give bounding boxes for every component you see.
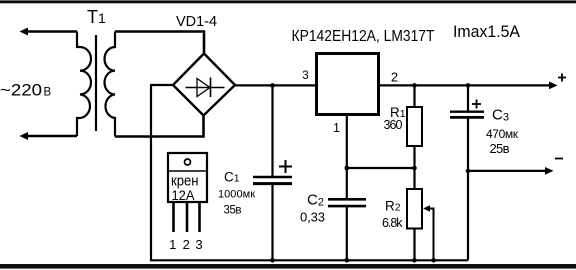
wire: regulator pin 1 down bbox=[346, 115, 348, 169]
wire: pin1 to R1/R2 junction bbox=[347, 167, 415, 169]
svg-text:2: 2 bbox=[391, 70, 398, 85]
transformer T1 primary winding bbox=[77, 32, 91, 137]
minus mark output bbox=[555, 158, 563, 160]
svg-text:1: 1 bbox=[333, 121, 340, 135]
svg-text:3: 3 bbox=[195, 237, 202, 252]
svg-text:35в: 35в bbox=[224, 205, 242, 217]
node: junction R2 bottom bbox=[412, 258, 417, 263]
svg-text:1000мк: 1000мк bbox=[218, 189, 255, 201]
node: junction C2 bottom bbox=[345, 258, 350, 263]
node: junction C1 bottom bbox=[270, 258, 275, 263]
wire: minus output with arrow bbox=[468, 170, 550, 172]
capacitor C1 bbox=[271, 85, 273, 176]
wire: AC input top with arrow bbox=[24, 30, 77, 33]
regulator package (TO-220) body bbox=[168, 153, 207, 202]
svg-text:6.8k: 6.8k bbox=[382, 216, 403, 230]
node: junction minus branch bbox=[466, 169, 471, 174]
svg-text:КР142ЕН12А, LM317Т: КР142ЕН12А, LM317Т bbox=[292, 28, 435, 45]
svg-text:470мк: 470мк bbox=[486, 127, 519, 141]
node: junction C1 top bbox=[270, 83, 275, 88]
svg-text:25в: 25в bbox=[490, 141, 510, 156]
bridge rectifier VD1-4 diamond bbox=[173, 54, 235, 116]
wire: bridge plus (right vertex) to regulator pin 3 bbox=[235, 84, 316, 86]
package pin 1 bbox=[172, 203, 175, 233]
wire: AC input bottom with arrow bbox=[24, 135, 77, 138]
diode symbol inside bridge bbox=[186, 87, 225, 89]
svg-text:R2: R2 bbox=[385, 199, 401, 214]
capacitor C3 bbox=[467, 85, 469, 110]
svg-text:~220: ~220 bbox=[0, 82, 42, 100]
svg-text:VD1-4: VD1-4 bbox=[176, 13, 217, 30]
wire: secondary top to bridge bbox=[115, 32, 204, 54]
node: junction R1 top bbox=[412, 83, 417, 88]
node: junction C3 top bbox=[466, 83, 471, 88]
R2 wiper arrow bbox=[429, 209, 434, 261]
wire: regulator pin 2 output to plus arrow bbox=[378, 84, 554, 86]
svg-text:Imax1.5A: Imax1.5A bbox=[453, 23, 520, 41]
svg-text:12А: 12А bbox=[172, 188, 195, 203]
transformer T1 secondary winding bbox=[105, 32, 115, 137]
wire: secondary bottom to bridge bottom vertex bbox=[115, 116, 204, 137]
svg-text:2: 2 bbox=[183, 237, 190, 252]
capacitor C2 bbox=[346, 168, 348, 198]
svg-text:Т1: Т1 bbox=[87, 7, 106, 27]
svg-text:0,33: 0,33 bbox=[300, 210, 325, 225]
plus mark output bbox=[558, 77, 566, 79]
regulator U1 box bbox=[317, 54, 379, 115]
svg-text:360: 360 bbox=[384, 118, 403, 132]
node: junction pin1/C2 bbox=[345, 166, 350, 171]
svg-text:1: 1 bbox=[169, 237, 176, 252]
resistor R2 (trimmer) bbox=[413, 168, 415, 189]
resistor R1 bbox=[413, 85, 415, 107]
svg-text:В: В bbox=[44, 87, 52, 99]
wire: bridge minus (left vertex) down and bottom rail bbox=[151, 85, 468, 260]
plus mark C3 bbox=[472, 103, 481, 105]
svg-text:С1: С1 bbox=[224, 170, 240, 185]
svg-text:3: 3 bbox=[302, 70, 308, 82]
package pin 2 bbox=[186, 203, 189, 233]
transformer core bbox=[95, 35, 97, 131]
node: junction R1 bottom / R2 top bbox=[412, 166, 417, 171]
package pin 3 bbox=[198, 203, 201, 233]
node: junction wiper bottom bbox=[431, 258, 436, 263]
plus mark C1 bbox=[279, 166, 292, 168]
